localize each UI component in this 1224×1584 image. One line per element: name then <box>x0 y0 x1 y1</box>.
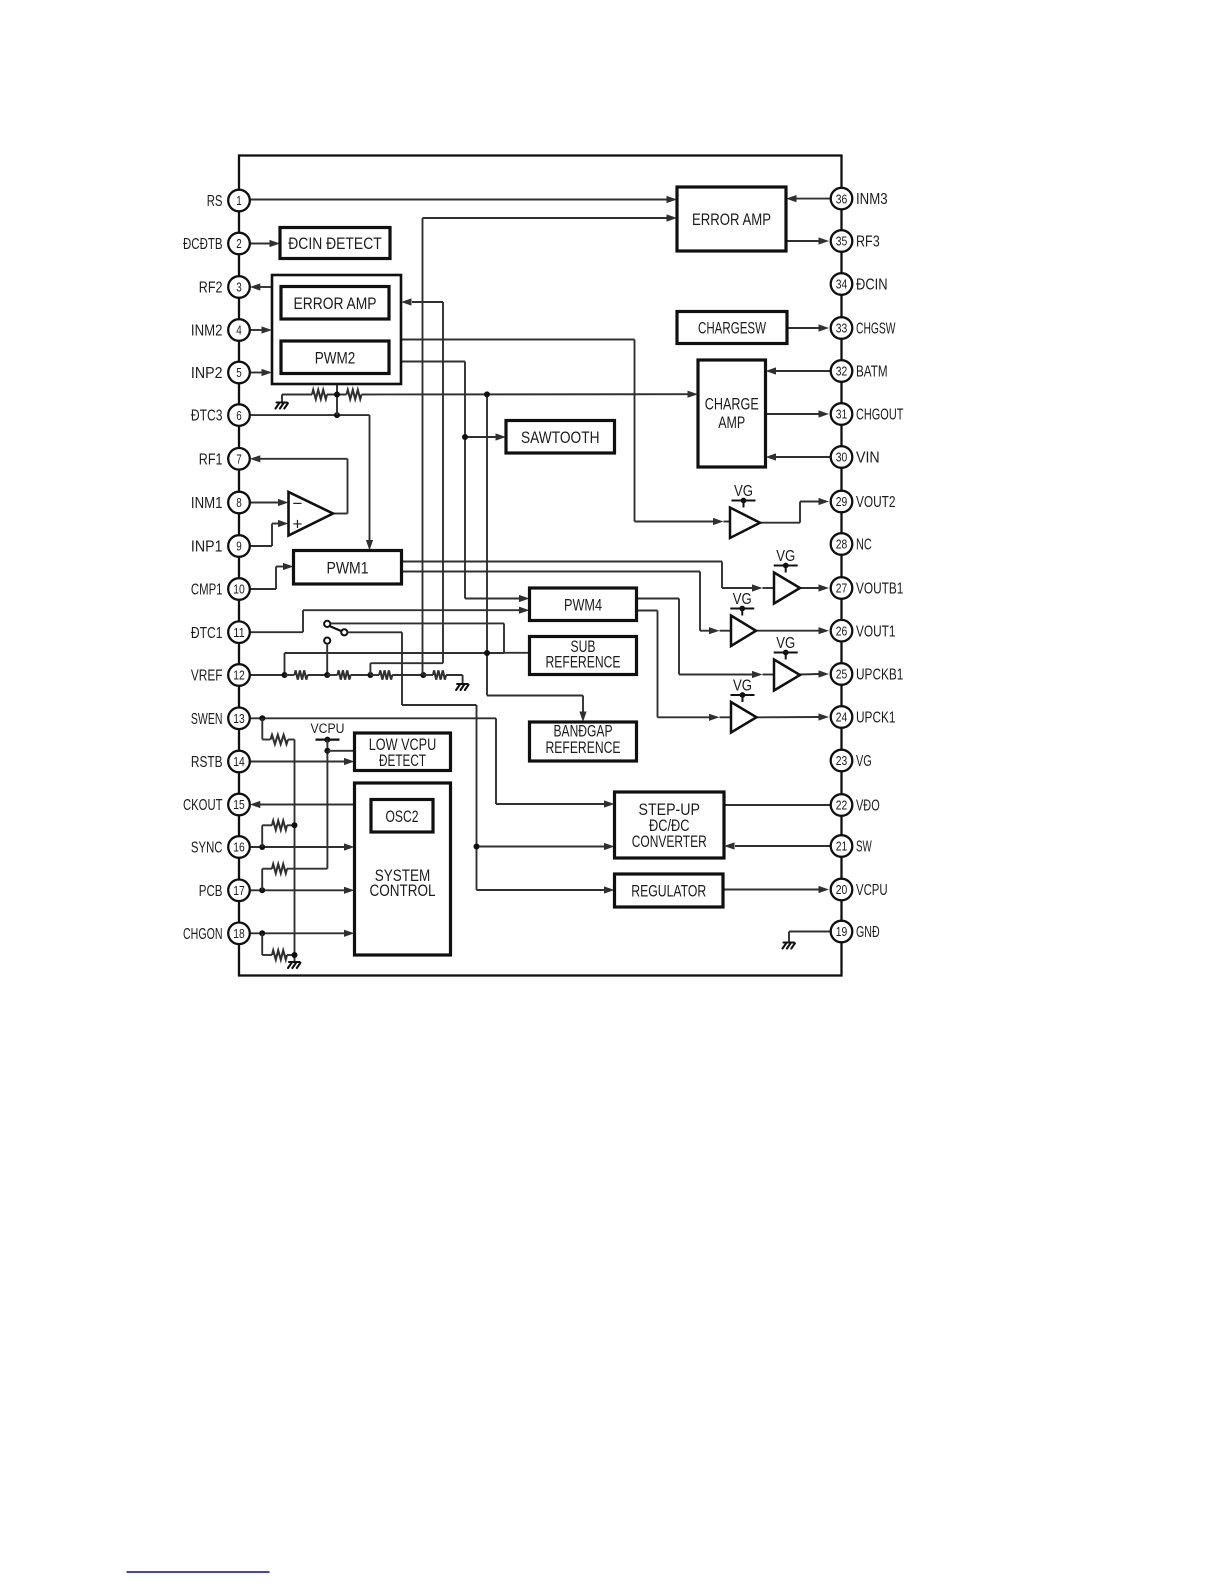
svg-text:VG: VG <box>776 548 795 565</box>
svg-text:REFERENCE: REFERENCE <box>546 738 621 757</box>
block BANDGAP REFERENCE <box>530 722 637 762</box>
wire INP2 pin5 to PWM2 block <box>250 369 272 376</box>
wire net from bias junction down to SUB REF row and BANDGAP <box>487 394 587 722</box>
pin 19 GNĐ <box>831 921 880 943</box>
svg-text:VOUT1: VOUT1 <box>856 623 896 640</box>
buffer amp UPCKB1 <box>774 660 800 691</box>
svg-text:31: 31 <box>836 407 848 422</box>
svg-text:28: 28 <box>836 537 848 552</box>
block PWM1 <box>294 551 402 585</box>
pin 22 VĐO <box>831 794 880 816</box>
svg-text:VG: VG <box>733 678 752 695</box>
wire VIN pin30 to CHARGE AMP <box>766 453 831 460</box>
pin 36 INM3 <box>831 188 888 210</box>
svg-text:SWEN: SWEN <box>191 711 223 728</box>
svg-text:3: 3 <box>236 280 242 295</box>
switch SW1 pole contact <box>324 621 330 627</box>
block LOW VCPU DETECT <box>355 733 451 771</box>
wire VREF pin12 to divider <box>250 674 285 676</box>
wire PCB pullup to VCPU <box>262 869 327 891</box>
node SWEN junction <box>259 715 265 721</box>
wire SYNC pin16 to SYSTEM CONTROL <box>250 843 355 850</box>
pin 1 RS <box>207 190 250 212</box>
svg-text:24: 24 <box>836 710 848 725</box>
svg-text:15: 15 <box>233 797 245 812</box>
switch SW1 throw contact <box>341 629 347 635</box>
block PWM2 outer <box>272 275 401 384</box>
pin 26 VOUT1 <box>831 620 896 642</box>
svg-text:CONVERTER: CONVERTER <box>632 832 707 851</box>
label SYSTEM CONTROL <box>370 866 436 900</box>
block CHARGE AMP <box>698 360 766 467</box>
block ERROR AMP U3 <box>677 187 786 251</box>
power VG label VOUT1 <box>730 591 754 616</box>
pin 20 VCPU <box>831 879 888 901</box>
svg-text:PCB: PCB <box>199 883 223 900</box>
pin 2 ĐCĐTB <box>183 233 250 255</box>
svg-text:5: 5 <box>236 365 242 380</box>
wire RS pin1 to ERROR AMP U3 <box>250 196 677 203</box>
wire switch throw to STEP-UP and REGULATOR <box>347 632 614 893</box>
wire SW pin21 to STEP-UP <box>724 842 831 849</box>
svg-text:19: 19 <box>836 924 848 939</box>
pin 21 SW <box>831 835 873 857</box>
svg-text:21: 21 <box>836 839 848 854</box>
svg-text:16: 16 <box>233 840 245 855</box>
svg-text:33: 33 <box>836 321 848 336</box>
resistor R_b2 <box>347 390 362 399</box>
wire SYNC pullup branch <box>262 825 294 847</box>
switch SW1 arm <box>329 626 341 631</box>
svg-text:ĐCĐTB: ĐCĐTB <box>183 236 223 253</box>
pin 7 RF1 <box>199 448 250 470</box>
svg-text:VG: VG <box>856 753 872 770</box>
power VG label UPCKB1 <box>774 635 798 660</box>
svg-text:SAWTOOTH: SAWTOOTH <box>521 428 600 447</box>
svg-text:VREF: VREF <box>191 668 223 685</box>
power VG label VOUTB1 <box>774 548 798 573</box>
buffer amp VOUT2 <box>730 508 760 539</box>
pin 12 VREF <box>191 664 250 686</box>
power VCPU symbol <box>311 721 355 869</box>
wire INM1 pin8 to comparator - input <box>250 499 289 506</box>
wire CKOUT pin15 from SYSTEM CONTROL <box>250 801 355 808</box>
pin 31 CHGOUT <box>831 403 904 425</box>
block SYSTEM CONTROL <box>355 783 451 955</box>
svg-text:23: 23 <box>836 753 848 768</box>
wire INM3 pin36 to ERROR AMP U3 <box>786 195 831 202</box>
wire R3 to tap D <box>370 674 379 676</box>
svg-text:27: 27 <box>836 581 848 596</box>
pin 33 CHGSW <box>831 317 896 339</box>
pin 9 INP1 <box>191 535 250 557</box>
svg-text:26: 26 <box>836 623 848 638</box>
svg-text:VCPU: VCPU <box>311 721 345 736</box>
pin 13 SWEN <box>191 708 250 730</box>
pin 3 RF2 <box>199 276 250 298</box>
resistor R_chgon <box>272 950 287 959</box>
node bias junction <box>334 392 340 398</box>
IC outline border <box>239 156 842 976</box>
pin 27 VOUTB1 <box>831 577 904 599</box>
pin 34 ĐCIN <box>831 273 888 295</box>
svg-text:ĐCIN ĐETECT: ĐCIN ĐETECT <box>288 234 382 253</box>
svg-text:4: 4 <box>236 323 242 338</box>
svg-text:AMP: AMP <box>718 413 745 432</box>
svg-text:PWM1: PWM1 <box>327 558 369 577</box>
svg-text:RS: RS <box>207 193 223 210</box>
svg-text:UPCK1: UPCK1 <box>856 710 896 727</box>
pin 11 ĐTC1 <box>191 621 250 643</box>
svg-text:OSC2: OSC2 <box>386 807 419 826</box>
node switch branch junction <box>474 844 480 850</box>
ground under PWM2 <box>276 403 288 409</box>
svg-text:INM1: INM1 <box>191 495 223 512</box>
resistor R1 <box>295 670 308 679</box>
node rail junction chgon <box>292 952 298 958</box>
svg-text:INP1: INP1 <box>191 539 223 556</box>
svg-text:8: 8 <box>236 495 242 510</box>
wire switch lower contact to VREF tap <box>326 644 328 675</box>
wire PWM2 output to SAWTOOTH and PWM4 <box>401 362 530 603</box>
svg-text:PWM2: PWM2 <box>315 348 356 367</box>
node divider tap B <box>324 672 330 678</box>
pin 28 NC <box>831 533 872 555</box>
resistor R_b1 <box>312 390 327 399</box>
wire RF2 from PWM2 block to pin3 <box>250 283 272 290</box>
buffer amp VOUTB1 <box>774 573 800 604</box>
block CHARGESW <box>677 312 787 344</box>
svg-text:18: 18 <box>233 926 245 941</box>
pin 17 PCB <box>199 880 250 902</box>
svg-text:36: 36 <box>836 191 848 206</box>
block OSC2 <box>371 800 433 833</box>
pin 35 RF3 <box>831 230 880 252</box>
wire R1 to tap B <box>285 674 295 676</box>
wire switch pole to SUB REFERENCE <box>330 623 529 652</box>
wire CHGON pulldown branch <box>262 933 294 955</box>
power VG label UPCK1 <box>730 678 754 703</box>
wire INP1 pin9 to comparator + input <box>250 520 289 546</box>
svg-text:13: 13 <box>233 711 245 726</box>
resistor R2 <box>338 670 351 679</box>
footer rule <box>127 1571 270 1573</box>
wire REGULATOR output to VCPU pin20 <box>723 886 829 893</box>
svg-text:VIN: VIN <box>856 450 880 467</box>
pin 16 SYNC <box>191 836 250 858</box>
svg-text:REGULATOR: REGULATOR <box>631 882 706 901</box>
block DCIN DETECT <box>280 228 390 259</box>
svg-text:PWM4: PWM4 <box>564 595 602 614</box>
svg-text:CMP1: CMP1 <box>191 582 223 599</box>
svg-text:ĐTC3: ĐTC3 <box>191 408 223 425</box>
svg-text:VG: VG <box>776 635 795 652</box>
switch SW1 lower contact <box>324 638 330 644</box>
svg-text:CHGOUT: CHGOUT <box>856 407 904 424</box>
node DTC3 junction <box>334 412 340 418</box>
node rail junction sync <box>292 822 298 828</box>
svg-text:6: 6 <box>236 408 242 423</box>
resistor R3 <box>379 670 392 679</box>
op-amp comparator A1 <box>289 492 334 536</box>
svg-text:RF3: RF3 <box>856 234 880 251</box>
wire VOUTB1 buffer output to pin27 <box>800 584 829 591</box>
wire vertical net A : VREF tap D to ERROR AMP U3 input <box>423 214 678 675</box>
svg-text:INM2: INM2 <box>191 323 223 340</box>
wire STEP-UP output to VDO pin22 <box>724 804 831 806</box>
wire PWM1 output 1 to VOUTB1 buffer <box>402 562 775 592</box>
pin 4 INM2 <box>191 319 250 341</box>
svg-text:VCPU: VCPU <box>856 882 888 899</box>
wire divider riser to SUB REFERENCE <box>285 653 505 675</box>
block SUB REFERENCE <box>530 637 637 675</box>
svg-text:34: 34 <box>836 277 848 292</box>
svg-text:20: 20 <box>836 882 848 897</box>
svg-text:SYNC: SYNC <box>191 840 223 857</box>
svg-text:NC: NC <box>856 537 872 554</box>
ground GND pin19 <box>783 943 795 949</box>
svg-text:+: + <box>293 515 303 534</box>
svg-text:12: 12 <box>233 668 245 683</box>
svg-text:INP2: INP2 <box>191 365 223 382</box>
svg-text:VĐO: VĐO <box>856 798 880 815</box>
svg-text:REFERENCE: REFERENCE <box>546 652 621 671</box>
resistor R_swen <box>271 735 289 744</box>
svg-text:10: 10 <box>233 582 245 597</box>
block ERROR AMP (PWM2) <box>281 287 389 320</box>
block REGULATOR <box>615 874 724 907</box>
wire DTC3 pin6 to PWM1 top <box>250 415 373 550</box>
wire RSTB pin14 to LOW VCPU DETECT <box>250 758 355 765</box>
svg-text:VG: VG <box>733 591 752 608</box>
resistor R_pcb <box>272 864 287 873</box>
svg-text:ERROR AMP: ERROR AMP <box>692 210 771 229</box>
wire ERROR AMP U3 output to RF3 pin35 <box>786 237 829 244</box>
pin 24 UPCK1 <box>831 706 896 728</box>
wire DTC1 pin11 jog to PWM4 input <box>250 607 530 633</box>
node PCB junction <box>259 887 265 893</box>
svg-text:GNĐ: GNĐ <box>856 924 880 941</box>
wire ground rail <box>294 740 296 963</box>
wire DCDTB pin2 to DCIN DETECT <box>250 240 280 247</box>
wire UPCK1 buffer output to pin24 <box>757 713 830 720</box>
svg-text:CHARGE: CHARGE <box>705 394 759 413</box>
pin 23 VG <box>831 750 872 772</box>
svg-text:7: 7 <box>236 452 242 467</box>
wire PWM2 output to VOUT2 buffer <box>401 340 730 526</box>
pin 15 CKOUT <box>183 794 250 816</box>
pin 25 UPCKB1 <box>831 663 904 685</box>
svg-text:VOUT2: VOUT2 <box>856 494 896 511</box>
svg-text:35: 35 <box>836 234 848 249</box>
pin 30 VIN <box>831 446 880 468</box>
wire VOUT1 buffer output to pin26 <box>756 627 829 634</box>
wire BATM pin32 to CHARGE AMP <box>766 367 831 374</box>
svg-text:14: 14 <box>233 754 245 769</box>
svg-text:CONTROL: CONTROL <box>370 881 436 900</box>
wire VOUT2 buffer output to pin29 <box>760 498 829 523</box>
svg-text:CHARGESW: CHARGESW <box>698 319 766 338</box>
block PWM4 <box>530 588 637 621</box>
wire PWM4 output 1 to UPCKB1 buffer <box>637 599 775 679</box>
block PWM2 <box>281 341 389 374</box>
wire INM2 pin4 to PWM2 block <box>250 326 272 333</box>
wire SWEN pulldown branch <box>262 718 294 739</box>
node bias vertical top junction <box>484 391 490 397</box>
buffer amp VOUT1 <box>731 616 756 647</box>
pin 29 VOUT2 <box>831 491 896 513</box>
svg-text:ĐETECT: ĐETECT <box>379 751 426 770</box>
wire PWM1 output 2 to VOUT1 buffer <box>402 572 732 635</box>
block STEP-UP DC/DC CONVERTER <box>615 792 725 858</box>
wire PWM2 bias rail with ground <box>282 384 698 415</box>
svg-text:ĐTC1: ĐTC1 <box>191 625 223 642</box>
wire CMP1 pin10 to PWM1 input <box>250 563 294 589</box>
pin 14 RSTB <box>191 751 250 773</box>
wire SWEN pin13 to STEP-UP input <box>250 718 615 807</box>
svg-text:INM3: INM3 <box>856 191 888 208</box>
node sawtooth branch <box>462 434 468 440</box>
wire R2 to tap C <box>327 674 337 676</box>
svg-text:CHGON: CHGON <box>183 926 223 943</box>
wire CHARGE AMP to CHGOUT pin31 <box>766 410 830 417</box>
ground divider end <box>456 684 468 690</box>
svg-text:32: 32 <box>836 364 848 379</box>
block SAWTOOTH <box>506 421 615 454</box>
svg-text:1: 1 <box>236 193 242 208</box>
svg-text:VOUTB1: VOUTB1 <box>856 581 903 598</box>
svg-text:22: 22 <box>836 798 848 813</box>
power VG label VOUT2 <box>732 483 756 508</box>
node divider tap D <box>420 672 426 678</box>
resistor R_sync <box>272 821 287 830</box>
wire CHARGESW to CHGSW pin33 <box>787 324 829 331</box>
svg-text:25: 25 <box>836 667 848 682</box>
wire RF1 feedback from comparator to pin7 <box>250 455 348 513</box>
wire UPCKB1 buffer output to pin25 <box>800 670 829 677</box>
svg-text:UPCKB1: UPCKB1 <box>856 667 903 684</box>
svg-text:17: 17 <box>233 883 245 898</box>
pin 6 ĐTC3 <box>191 404 250 426</box>
svg-text:29: 29 <box>836 494 848 509</box>
svg-text:RF2: RF2 <box>199 280 223 297</box>
svg-text:RSTB: RSTB <box>191 754 223 771</box>
svg-text:−: − <box>293 494 303 513</box>
svg-text:30: 30 <box>836 450 848 465</box>
svg-text:9: 9 <box>236 539 242 554</box>
node SYNC junction <box>259 844 265 850</box>
wire PCB pin17 to SYSTEM CONTROL <box>250 887 355 894</box>
svg-text:RF1: RF1 <box>199 451 223 468</box>
svg-text:SW: SW <box>856 839 872 856</box>
svg-text:BATM: BATM <box>856 364 888 381</box>
svg-text:VG: VG <box>734 483 753 500</box>
svg-text:ĐCIN: ĐCIN <box>856 277 888 294</box>
node divider tap C <box>367 672 373 678</box>
svg-text:ERROR AMP: ERROR AMP <box>294 294 377 313</box>
buffer amp UPCK1 <box>731 702 757 733</box>
wire CHGON pin18 to SYSTEM CONTROL <box>250 930 355 937</box>
node divider tap A <box>282 672 288 678</box>
svg-text:CHGSW: CHGSW <box>856 321 896 338</box>
svg-text:11: 11 <box>233 625 245 640</box>
node CHGON junction <box>259 930 265 936</box>
pin 8 INM1 <box>191 492 250 514</box>
wire vertical net B : VREF tap C to PWM2 error amp input <box>370 298 443 675</box>
wire PWM4 output 2 to UPCK1 buffer <box>637 611 732 721</box>
wire R4 to ground <box>423 674 433 676</box>
svg-text:CKOUT: CKOUT <box>183 797 223 814</box>
pin 5 INP2 <box>191 362 250 384</box>
pin 10 CMP1 <box>191 578 250 600</box>
node SUB REF line junction <box>484 650 490 656</box>
pin 18 CHGON <box>183 923 250 945</box>
ground rail bottom <box>288 962 300 968</box>
svg-text:2: 2 <box>236 236 242 251</box>
pin 32 BATM <box>831 360 888 382</box>
wire GND pin19 stub <box>789 932 831 942</box>
resistor R4 <box>433 670 446 679</box>
